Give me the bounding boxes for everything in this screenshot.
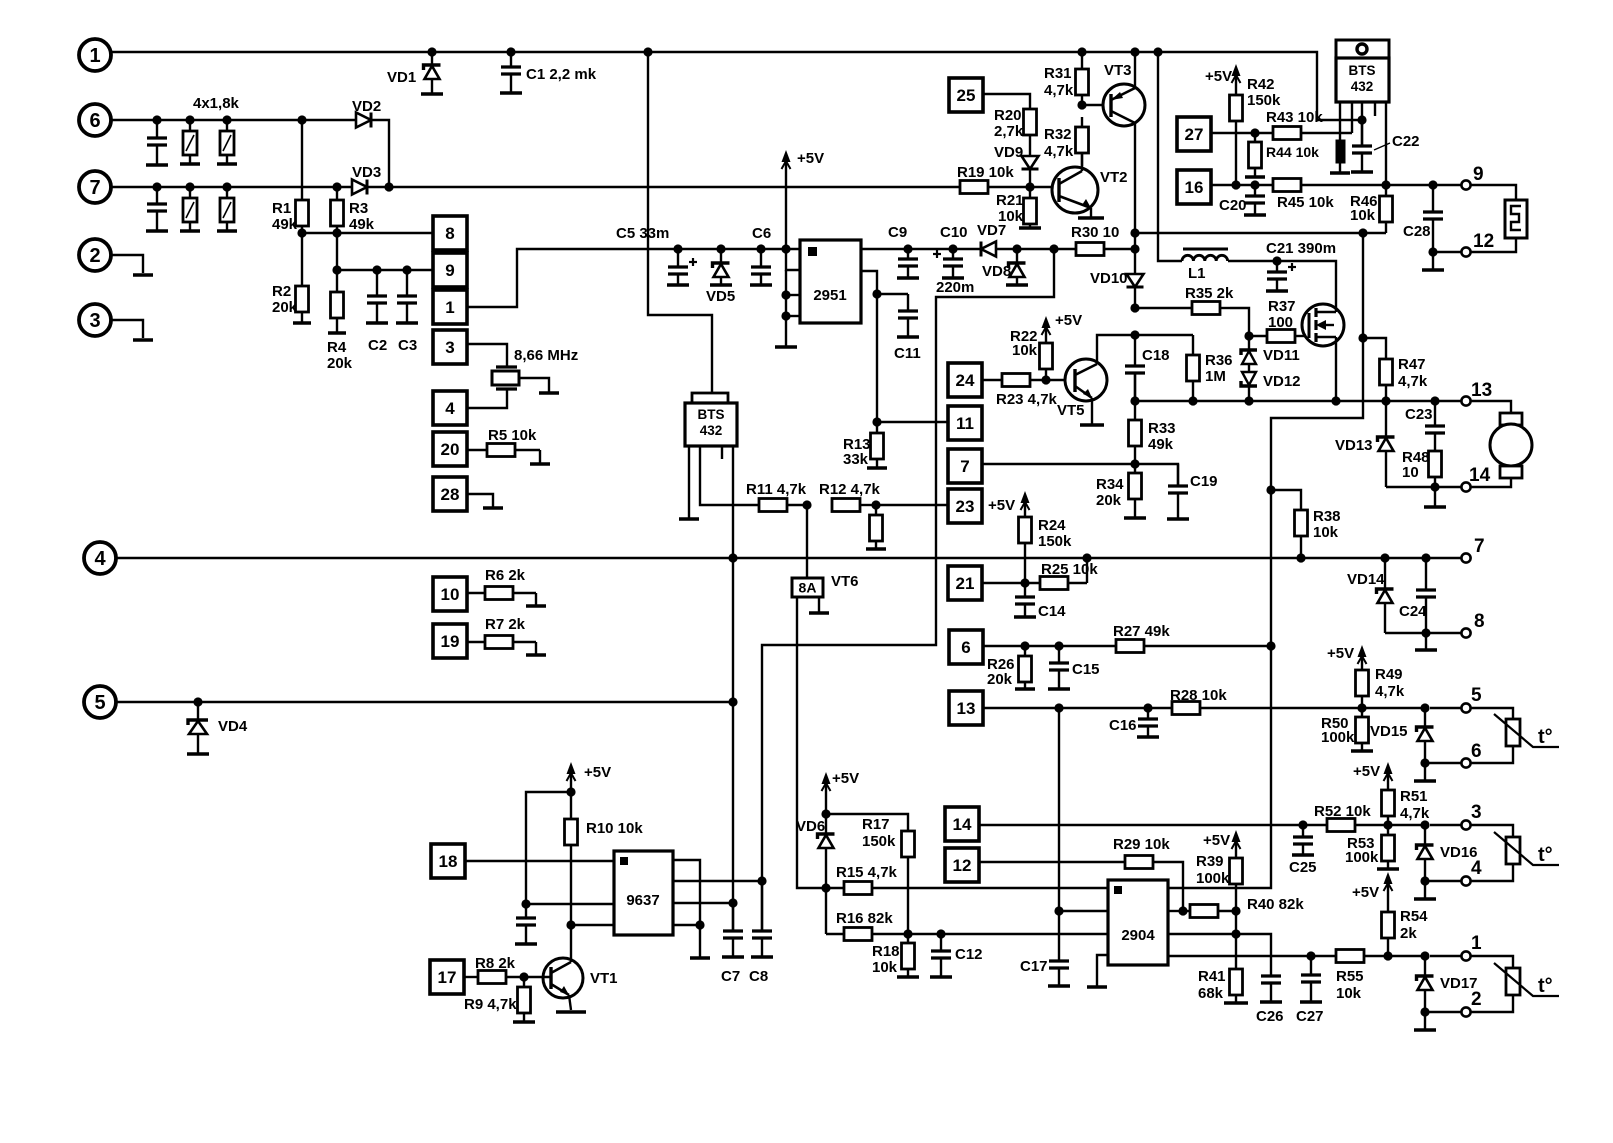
capacitor line7 filter: [156, 187, 158, 204]
pin box 4: [433, 391, 467, 425]
resistor R55: [1336, 950, 1364, 963]
ground bar 9637: [690, 956, 710, 960]
wire thermistor1 return: [1471, 746, 1513, 763]
wire R28 to channel1: [1200, 707, 1425, 709]
junction rail/input branch: [1049, 244, 1058, 253]
svg-text:VD12: VD12: [1263, 373, 1301, 390]
wire to box 11: [877, 421, 948, 423]
pin box 24: [948, 363, 982, 397]
junction VD15 bottom: [1420, 758, 1429, 767]
svg-text:R30 10: R30 10: [1071, 224, 1119, 241]
C24 node ground: [1425, 633, 1427, 649]
capacitor C17: [1058, 911, 1060, 961]
resistor R27: [1116, 640, 1144, 653]
resistor R20: [1024, 109, 1037, 135]
capacitor C28: [1432, 185, 1434, 212]
svg-text:7: 7: [1474, 536, 1485, 557]
svg-text:R33: R33: [1148, 420, 1176, 437]
9637 right pin a: [673, 860, 700, 925]
svg-text:9: 9: [1473, 164, 1484, 185]
svg-text:C23: C23: [1405, 406, 1433, 423]
junction input rail/C9: [903, 244, 912, 253]
svg-text:VD2: VD2: [352, 98, 381, 115]
svg-text:150k: 150k: [862, 833, 896, 850]
junction x1271/R38: [1266, 485, 1275, 494]
svg-text:R28 10k: R28 10k: [1170, 687, 1227, 704]
resistor R25: [1068, 582, 1087, 584]
wire 2951 input rail: [861, 248, 981, 250]
svg-text:VD11: VD11: [1263, 347, 1300, 364]
bar under R13: [867, 466, 887, 470]
wire VT3 base: [1082, 104, 1111, 106]
wire VD16 node: [1425, 880, 1462, 882]
junction line4/VD14: [1380, 553, 1389, 562]
svg-text:13: 13: [1471, 380, 1492, 401]
wire R52 to node: [1354, 824, 1425, 826]
svg-text:R41: R41: [1198, 968, 1226, 985]
junction line6 a: [152, 115, 161, 124]
svg-text:100: 100: [1268, 314, 1293, 331]
svg-text:R16 82k: R16 82k: [836, 910, 893, 927]
+5V arrow R54: [1387, 876, 1389, 912]
svg-text:t°: t°: [1538, 975, 1553, 997]
resistor R13: [876, 422, 878, 433]
wire line1 rail: [111, 52, 1362, 120]
terminal 1: [1461, 951, 1470, 960]
wire line6: [111, 119, 356, 121]
zener diode VD17: [1424, 956, 1426, 976]
wire R38 branch: [1271, 490, 1301, 510]
resistor R7: [467, 641, 485, 643]
VT5 emitter to ground: [1091, 398, 1093, 424]
wire thermistor3 loop: [1471, 956, 1513, 968]
pin box 17: [430, 960, 464, 994]
ground bar R50: [1351, 749, 1373, 753]
svg-text:R34: R34: [1096, 476, 1124, 493]
stub bar under R2: [293, 321, 311, 325]
svg-text:C10: C10: [940, 224, 968, 241]
ground bar under 2951: [775, 345, 797, 349]
svg-text:L1: L1: [1188, 265, 1206, 282]
ground bar C24: [1415, 648, 1437, 652]
junction collector/C18 node: [1130, 330, 1139, 339]
terminal circle 1: [79, 39, 111, 71]
stub C11: [877, 293, 908, 295]
stub terminal 3: [111, 320, 143, 338]
svg-text:16: 16: [1185, 178, 1204, 197]
ground bar VT6: [809, 611, 829, 615]
svg-text:14: 14: [1469, 465, 1491, 486]
svg-text:+5V: +5V: [797, 150, 824, 167]
junction C28 bottom: [1428, 247, 1437, 256]
wire box7 line: [982, 463, 1135, 465]
junction VD2/line7: [384, 182, 393, 191]
svg-text:100k: 100k: [1196, 870, 1230, 887]
junction C12: [936, 929, 945, 938]
ground bar R53: [1377, 867, 1399, 871]
bar under box28 stub: [483, 506, 503, 510]
bar under R6 stub: [526, 604, 546, 608]
capacitor C9: [907, 249, 909, 259]
wire R55 to node: [1364, 955, 1425, 957]
svg-text:C11: C11: [894, 345, 921, 362]
resistor R28: [1172, 702, 1200, 715]
wire 2951 pin2 sense: [786, 249, 800, 270]
transistor VT3 (pnp): [1103, 84, 1145, 126]
9637 right pin b: [673, 880, 762, 882]
stub 2904 pin right (911): [1168, 910, 1183, 912]
svg-text:4,7k: 4,7k: [1398, 373, 1428, 390]
junction R18/R17: [903, 929, 912, 938]
svg-text:4x1,8k: 4x1,8k: [193, 95, 240, 112]
svg-text:4: 4: [445, 399, 455, 418]
pin box 21: [948, 566, 982, 600]
junction C15: [1054, 641, 1063, 650]
terminal circle 7: [79, 171, 111, 203]
svg-text:R44 10k: R44 10k: [1266, 144, 1319, 160]
resistor R51: [1387, 816, 1389, 825]
wire R15 to 2904: [872, 887, 1108, 889]
svg-text:R27 49k: R27 49k: [1113, 623, 1170, 640]
junction line1/x648: [643, 47, 652, 56]
junction rail/C5: [673, 244, 682, 253]
svg-text:R10 10k: R10 10k: [586, 820, 643, 837]
svg-text:R20: R20: [994, 107, 1022, 124]
svg-text:C6: C6: [752, 225, 771, 242]
terminal circle 4: [84, 542, 116, 574]
svg-text:27: 27: [1185, 125, 1204, 144]
resistor R29: [1125, 856, 1153, 869]
wire motor to terminal14: [1471, 478, 1511, 487]
junction y233/x1363: [1358, 228, 1367, 237]
9637 right pin c: [673, 902, 733, 904]
svg-text:10k: 10k: [1313, 524, 1339, 541]
svg-text:C20: C20: [1219, 197, 1247, 214]
resistor R43: [1301, 132, 1352, 134]
svg-text:4,7k: 4,7k: [1044, 82, 1074, 99]
wire box13 down to 2904: [1058, 708, 1060, 911]
svg-text:432: 432: [1351, 79, 1374, 94]
bar under R44: [1245, 175, 1265, 179]
junction VD17: [1420, 951, 1429, 960]
+5V arrow 9637: [570, 766, 572, 792]
pin box 1: [433, 290, 467, 324]
wire thermistor3 return: [1471, 995, 1513, 1012]
svg-text:R47: R47: [1398, 356, 1426, 373]
svg-text:8: 8: [445, 224, 454, 243]
junction R33/R34: [1130, 459, 1139, 468]
motor M: [1500, 413, 1522, 425]
junction R26: [1020, 641, 1029, 650]
junction R49/R50: [1357, 703, 1366, 712]
svg-text:VD1: VD1: [387, 69, 416, 86]
junction y401/R36: [1188, 396, 1197, 405]
junction R10/VT1/9637: [566, 920, 575, 929]
junction R11/R12/VT6: [802, 500, 811, 509]
resistor R8: [506, 976, 524, 978]
junction 2951 pin stub a: [781, 290, 790, 299]
svg-text:3: 3: [1471, 802, 1482, 823]
wire box17 to R8: [464, 976, 478, 978]
wire VD14 to C24 node: [1385, 632, 1426, 634]
svg-text:C28: C28: [1403, 223, 1431, 240]
junction R13/box11: [872, 417, 881, 426]
svg-text:49k: 49k: [349, 216, 375, 233]
2904 gnd pin: [1097, 955, 1108, 986]
svg-text:+5V: +5V: [988, 497, 1015, 514]
ground bar C28: [1422, 268, 1444, 272]
stub 2951 pin4: [786, 315, 800, 317]
resistor R18: [907, 934, 909, 943]
ground bar R18: [897, 975, 919, 979]
svg-text:7: 7: [960, 457, 969, 476]
svg-text:20: 20: [441, 440, 460, 459]
svg-text:VT2: VT2: [1100, 169, 1128, 186]
9637 right pin d: [673, 924, 700, 926]
svg-text:C14: C14: [1038, 603, 1066, 620]
wire L1 to MOSFET drain: [1228, 261, 1336, 307]
pin box 16: [1177, 170, 1211, 204]
ground bar R34: [1124, 516, 1146, 520]
resistor R44: [1254, 133, 1256, 142]
svg-text:R55: R55: [1336, 968, 1364, 985]
pin box 12: [945, 848, 979, 882]
pin box 7: [948, 449, 982, 483]
junction box9 wire/R3R4: [332, 265, 341, 274]
transistor VT5: [1065, 359, 1107, 401]
junction R22/R23: [1041, 375, 1050, 384]
junction +5V branch: [566, 787, 575, 796]
junction 9637 gnd node: [695, 920, 704, 929]
svg-text:1: 1: [445, 298, 454, 317]
svg-text:2: 2: [1471, 989, 1482, 1010]
zener diode VD15: [1424, 708, 1426, 727]
svg-text:R23 4,7k: R23 4,7k: [996, 391, 1058, 408]
junction C27: [1306, 951, 1315, 960]
junction y401/VD12: [1244, 396, 1253, 405]
terminal circle 3: [79, 304, 111, 336]
resistor R31: [1081, 52, 1083, 69]
wire terminal13 to motor: [1471, 401, 1511, 413]
ground bar VD15: [1414, 779, 1436, 783]
ground bar VT5: [1080, 423, 1104, 427]
9637 gnd lead: [699, 925, 701, 957]
resistor R9: [523, 977, 525, 987]
zener diode VD11: [1241, 350, 1257, 355]
resistor R26: [1024, 646, 1026, 656]
BTS432 TR pin3: [1361, 102, 1363, 146]
wire box16 line: [1211, 184, 1462, 186]
wire battery sense: [1135, 232, 1386, 234]
capacitor C25: [1302, 825, 1304, 837]
svg-text:2k: 2k: [1400, 925, 1417, 942]
wire VT3 vertical: [1134, 52, 1136, 88]
terminal 13: [1461, 396, 1470, 405]
wire thermistor2 loop: [1471, 825, 1513, 837]
pin box 10: [433, 577, 467, 611]
svg-text:150k: 150k: [1247, 92, 1281, 109]
svg-text:C8: C8: [749, 968, 768, 985]
svg-text:+5V: +5V: [1353, 763, 1380, 780]
terminal 5: [1461, 703, 1470, 712]
junction VD15: [1420, 703, 1429, 712]
wire to box 9: [337, 269, 433, 271]
stub 2904 pin (911): [1059, 910, 1108, 912]
svg-text:t°: t°: [1538, 726, 1553, 748]
junction VD16: [1420, 820, 1429, 829]
junction y401/MOSFET: [1331, 396, 1340, 405]
svg-text:VD4: VD4: [218, 718, 248, 735]
pin box 27: [1177, 117, 1211, 151]
svg-text:C12: C12: [955, 946, 983, 963]
svg-text:+5V: +5V: [1203, 832, 1230, 849]
svg-text:20k: 20k: [1096, 492, 1122, 509]
junction C17/2904: [1054, 906, 1063, 915]
pin box 23: [948, 489, 982, 523]
resistor R24: [1024, 543, 1026, 583]
svg-text:VT3: VT3: [1104, 62, 1132, 79]
svg-text:R15 4,7k: R15 4,7k: [836, 864, 898, 881]
junction C24 bottom: [1421, 628, 1430, 637]
terminal 3: [1461, 820, 1470, 829]
bar under R14: [866, 547, 886, 551]
resistor R49: [1361, 696, 1363, 708]
MOSFET drain internal: [1335, 307, 1337, 312]
junction line4/BTS pin4: [728, 553, 737, 562]
thermistor sensor 2: [1506, 837, 1520, 864]
svg-text:R19 10k: R19 10k: [957, 164, 1014, 181]
svg-text:R38: R38: [1313, 508, 1341, 525]
svg-text:+5V: +5V: [1327, 645, 1354, 662]
svg-text:BTS: BTS: [1349, 63, 1376, 78]
svg-text:R11 4,7k: R11 4,7k: [746, 481, 807, 498]
svg-text:VD14: VD14: [1347, 571, 1385, 588]
resistor R2: [301, 233, 303, 286]
svg-text:6: 6: [89, 110, 100, 132]
svg-text:2: 2: [89, 245, 100, 267]
svg-text:21: 21: [956, 574, 975, 593]
svg-text:C17: C17: [1020, 958, 1048, 975]
wire R7 stub: [535, 642, 537, 654]
svg-text:4,7k: 4,7k: [1400, 805, 1430, 822]
BTS432 TR pin2: [1351, 102, 1353, 133]
terminal 7 small: [1461, 553, 1470, 562]
+5V arrow R42: [1235, 68, 1237, 95]
transistor VT1: [543, 958, 583, 998]
stub 2951 sense right: [861, 271, 877, 294]
resistor R16: [826, 933, 844, 935]
ground bar VT1: [556, 1010, 586, 1014]
wire box6 line: [983, 645, 1116, 647]
svg-text:R1: R1: [272, 200, 291, 217]
bar under R7 stub: [526, 653, 546, 657]
junction box13 branch: [1054, 703, 1063, 712]
pin box 3: [433, 330, 467, 364]
fuse VT6 8A box: [792, 578, 823, 597]
junction VD17 bottom: [1420, 1007, 1429, 1016]
svg-text:R21: R21: [996, 192, 1024, 209]
resistor R5: [467, 449, 487, 451]
zener diode VD1: [431, 52, 433, 65]
wire R29 to R40: [1152, 862, 1183, 911]
junction C11 node: [872, 289, 881, 298]
wire thermistor1 loop: [1471, 708, 1513, 719]
svg-text:BTS: BTS: [698, 407, 725, 422]
wire R47 top: [1363, 338, 1386, 346]
junction line4/R25: [1082, 553, 1091, 562]
svg-text:12: 12: [1473, 231, 1494, 252]
junction C20/box16 line: [1250, 180, 1259, 189]
svg-text:432: 432: [700, 423, 723, 438]
wire terminal3: [1430, 824, 1462, 826]
BTS432 TR pin1: [1339, 102, 1341, 140]
resistor R32: [1081, 117, 1083, 127]
BTS432 TR pin4 stub: [1374, 102, 1376, 116]
transistor VT2: [1052, 167, 1098, 213]
wire R17 branch: [826, 814, 908, 831]
terminal circle 6: [79, 104, 111, 136]
svg-text:C25: C25: [1289, 859, 1317, 876]
svg-text:R25 10k: R25 10k: [1041, 561, 1098, 578]
resistor R45: [1273, 179, 1301, 192]
crystal 8,66 MHz: [496, 365, 517, 368]
svg-text:C3: C3: [398, 337, 417, 354]
junction pin5/R46/rail: [1381, 180, 1390, 189]
capacitor C26: [1270, 975, 1272, 977]
svg-text:VD9: VD9: [994, 144, 1023, 161]
pin box 13: [949, 691, 983, 725]
wire box14 line: [979, 824, 1328, 826]
junction rail/C28: [1428, 180, 1437, 189]
svg-text:17: 17: [438, 968, 457, 987]
junction x1271/R27: [1266, 641, 1275, 650]
capacitor C15: [1058, 646, 1060, 663]
capacitor C24: [1425, 558, 1427, 590]
resistor R42: [1235, 121, 1237, 185]
svg-text:8: 8: [1474, 611, 1485, 632]
resistor R35: [1135, 307, 1192, 309]
junction line7 b: [185, 182, 194, 191]
heating element: [1505, 200, 1527, 238]
svg-text:R42: R42: [1247, 76, 1275, 93]
svg-text:C2: C2: [368, 337, 387, 354]
terminal 6: [1461, 758, 1470, 767]
svg-text:10k: 10k: [1336, 985, 1362, 1002]
inductor L1: [1183, 248, 1228, 251]
wire VD13 to terminal14 line: [1386, 486, 1462, 488]
ground bar BTS432 mid pin1: [679, 517, 699, 521]
pin box 14: [945, 807, 979, 841]
BTS432 mid pin4: [732, 446, 734, 931]
wire terminal1: [1430, 955, 1462, 957]
ground bar VD17: [1414, 1028, 1436, 1032]
junction x526 node: [521, 899, 530, 908]
junction VD6/R17: [821, 809, 830, 818]
resistor R10: [570, 792, 572, 819]
diode VD2: [356, 113, 371, 128]
junction R12/R14: [871, 500, 880, 509]
svg-text:VD13: VD13: [1335, 437, 1373, 454]
bar terminal 2 stub: [133, 273, 153, 277]
2904 out2 pin: [1168, 955, 1337, 957]
wire R5 stub: [539, 450, 541, 463]
IC 2904: [1108, 880, 1168, 965]
resistor R23: [1030, 379, 1075, 381]
capacitor C10: [952, 249, 954, 259]
svg-text:VD5: VD5: [706, 288, 735, 305]
svg-text:3: 3: [445, 338, 454, 357]
zener diode VD12: [1248, 364, 1250, 372]
